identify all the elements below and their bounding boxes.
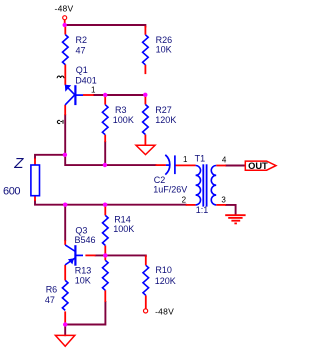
svg-text:T1: T1 [195, 153, 206, 163]
svg-text:47: 47 [76, 45, 86, 55]
svg-text:R13: R13 [75, 266, 92, 276]
svg-text:1: 1 [183, 155, 188, 164]
svg-text:R14: R14 [114, 215, 131, 225]
svg-text:R10: R10 [155, 265, 172, 275]
svg-text:47: 47 [45, 295, 55, 305]
svg-text:100K: 100K [113, 115, 134, 125]
svg-text:B546: B546 [75, 235, 96, 245]
svg-text:1uF/26V: 1uF/26V [153, 184, 187, 194]
svg-text:4: 4 [222, 155, 227, 164]
svg-text:-48V: -48V [55, 4, 74, 14]
svg-text:Q1: Q1 [76, 65, 88, 75]
svg-text:120K: 120K [155, 276, 176, 286]
svg-text:1: 1 [91, 86, 96, 95]
svg-text:R3: R3 [115, 105, 127, 115]
svg-text:10K: 10K [156, 44, 172, 54]
svg-text:D401: D401 [75, 75, 97, 85]
svg-text:3: 3 [221, 195, 226, 204]
svg-text:Z: Z [13, 155, 24, 172]
svg-text:10K: 10K [75, 275, 91, 285]
svg-text:-48V: -48V [155, 306, 174, 316]
svg-text:600: 600 [3, 186, 20, 198]
svg-text:R27: R27 [155, 105, 172, 115]
svg-text:100K: 100K [113, 224, 134, 234]
svg-text:1:1: 1:1 [196, 205, 209, 215]
svg-text:OUT: OUT [248, 161, 268, 171]
svg-text:R6: R6 [46, 285, 58, 295]
svg-text:120K: 120K [155, 115, 176, 125]
svg-text:C2: C2 [154, 175, 166, 185]
svg-text:2: 2 [182, 195, 187, 204]
svg-text:R2: R2 [76, 35, 88, 45]
